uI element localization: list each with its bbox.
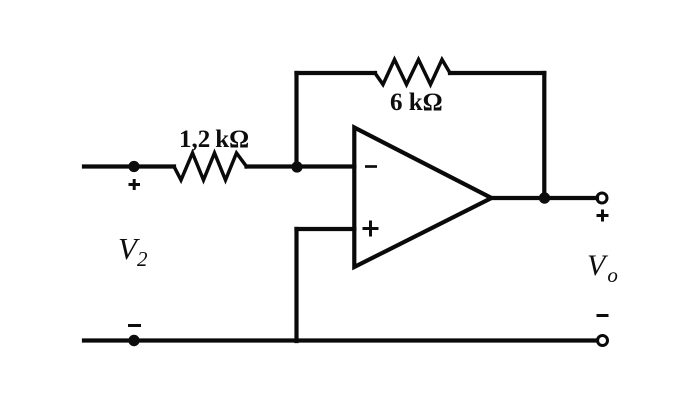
svg-text:6 kΩ: 6 kΩ <box>390 89 443 116</box>
node: bottom-left terminal dot <box>128 335 139 346</box>
node A: inverting junction dot <box>291 161 302 172</box>
terminal: output positive open circle <box>597 193 607 203</box>
wire: feedback left vertical from node A up <box>294 73 298 167</box>
resistor R2 6 kOhm zigzag <box>375 60 450 85</box>
wire: output segment <box>492 196 598 200</box>
wire: bottom rail <box>84 338 597 342</box>
label: - polarity above bottom-right terminal <box>597 314 609 317</box>
wire: resistor R1 to inverting node <box>247 164 355 168</box>
wire: top input segment from left terminal to resistor R1 <box>84 164 174 168</box>
node: output junction dot <box>539 192 550 203</box>
resistor R1 1.2 kOhm zigzag <box>174 153 247 180</box>
wire: non-inverting input vertical down to bottom rail <box>294 229 298 341</box>
label: op-amp non-inverting input plus sign <box>363 221 379 237</box>
svg-text:1,2 kΩ: 1,2 kΩ <box>179 126 249 153</box>
svg-text:V2: V2 <box>118 231 148 271</box>
label: - polarity above bottom-left terminal <box>128 324 141 327</box>
terminal: bottom-right negative open circle <box>598 336 608 346</box>
label: op-amp inverting input minus sign <box>365 165 377 168</box>
wire: feedback top-right horizontal segment <box>450 71 544 75</box>
svg-text:Vo: Vo <box>587 249 618 287</box>
op-amp U1 triangle <box>354 128 491 268</box>
node: input terminal dot <box>128 161 139 172</box>
wire: feedback top-left horizontal segment <box>297 71 376 75</box>
wire: feedback right vertical down to output node <box>542 73 546 198</box>
label: + polarity below output terminal <box>597 210 609 222</box>
wire: non-inverting input stub <box>297 227 355 231</box>
label: + polarity below input terminal <box>129 179 141 190</box>
